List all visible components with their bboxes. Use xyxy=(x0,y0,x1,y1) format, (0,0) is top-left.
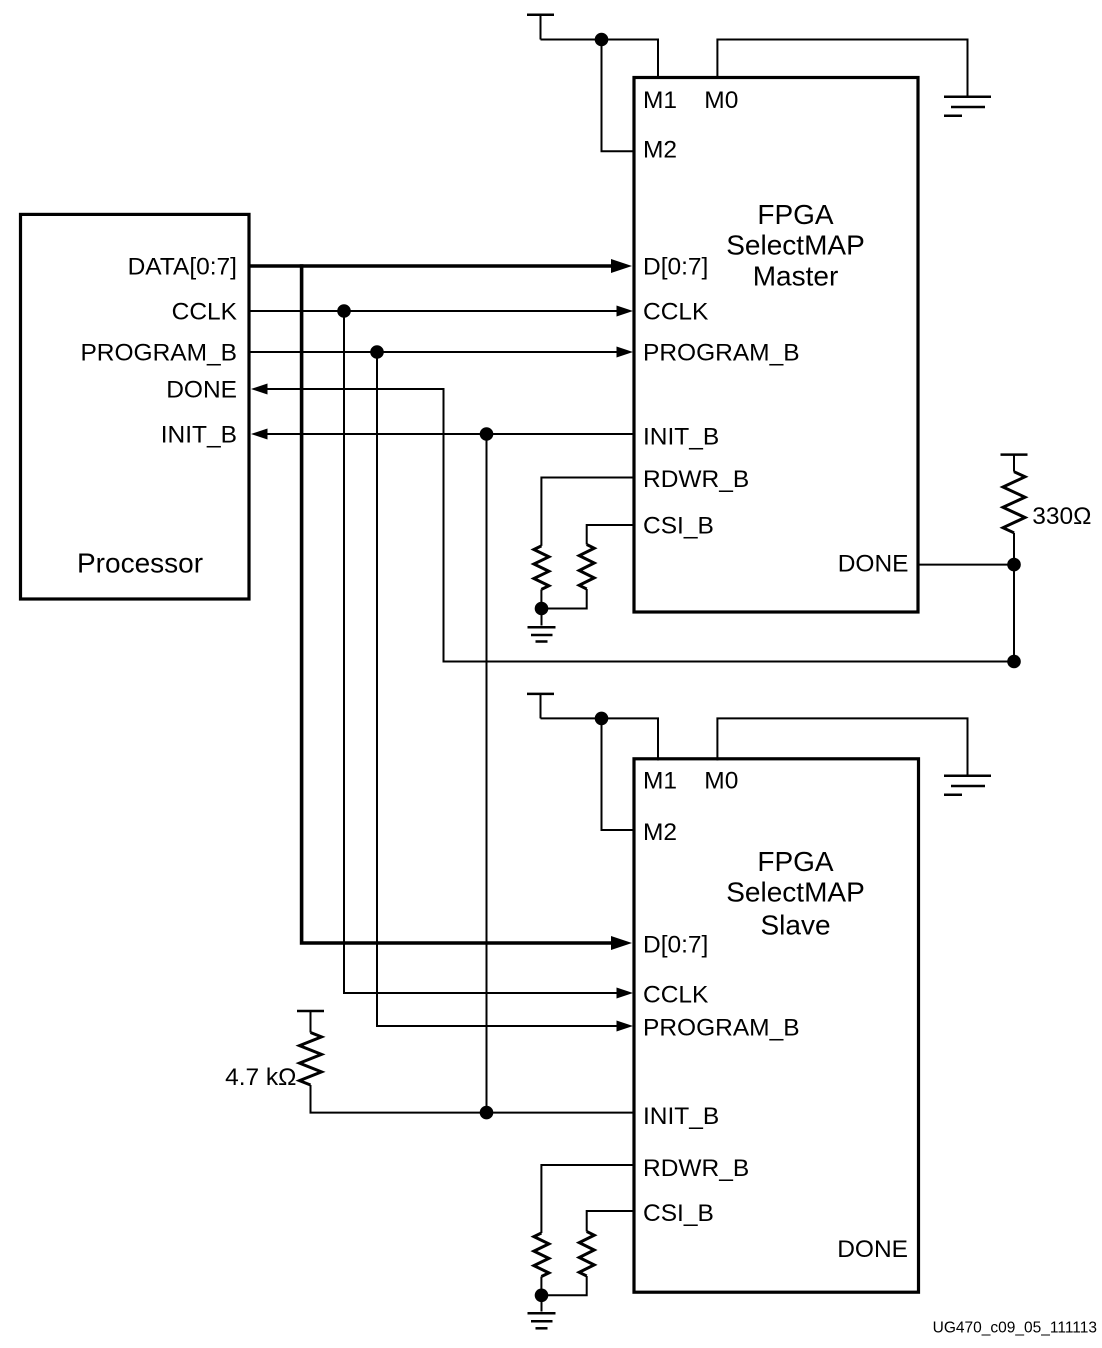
wire 4.7 kohm to slave INIT_B xyxy=(311,1085,635,1113)
processor box xyxy=(21,214,250,599)
svg-text:DONE: DONE xyxy=(166,377,237,404)
resistor slave RDWR_B pull-down xyxy=(534,1233,549,1277)
wire INIT_B processor to master INIT_B xyxy=(267,433,634,435)
wire PROGRAM_B processor to master PROGRAM_B xyxy=(251,351,618,353)
arrowhead into processor INIT_B xyxy=(251,429,268,440)
resistor master RDWR_B pull-down xyxy=(534,546,549,590)
arrowhead into master CCLK xyxy=(617,306,634,317)
arrowhead into master D[0:7] xyxy=(611,259,632,273)
wire CSI_B resistor to ground junction xyxy=(542,589,587,609)
junction dot PROGRAM_B branch xyxy=(370,345,384,359)
wire PROGRAM_B branch to slave PROGRAM_B xyxy=(377,352,618,1026)
wire master CSI_B to pull-down xyxy=(587,525,634,545)
svg-text:CCLK: CCLK xyxy=(172,299,238,326)
svg-text:PROGRAM_B: PROGRAM_B xyxy=(643,340,800,367)
arrowhead into processor DONE xyxy=(251,384,268,395)
svg-text:CCLK: CCLK xyxy=(643,299,709,326)
svg-text:DATA[0:7]: DATA[0:7] xyxy=(128,254,237,281)
wire to master ground symbol xyxy=(541,609,543,626)
junction dot CCLK branch xyxy=(337,304,351,318)
junction dot DONE / 330 ohm xyxy=(1007,558,1021,572)
svg-text:PROGRAM_B: PROGRAM_B xyxy=(643,1015,800,1042)
wire CCLK processor to master CCLK xyxy=(251,310,618,312)
junction dot slave pull-down ground xyxy=(535,1289,549,1303)
arrowhead into slave D[0:7] xyxy=(611,936,632,950)
wire slave RDWR_B to pull-down xyxy=(541,1165,634,1233)
wire to slave ground symbol xyxy=(541,1295,543,1311)
wire CCLK branch to slave CCLK xyxy=(344,311,618,993)
junction dot master pull-down ground xyxy=(535,602,549,616)
VCC symbol (4.7 kohm pull-up) xyxy=(297,1010,324,1013)
junction dot slave M1/M2 net xyxy=(595,712,609,726)
junction dot slave INIT_B xyxy=(480,1106,494,1120)
wire M0 to ground xyxy=(717,40,967,97)
svg-text:M0: M0 xyxy=(704,768,738,795)
svg-text:M2: M2 xyxy=(643,136,677,163)
svg-text:CSI_B: CSI_B xyxy=(643,1200,714,1227)
svg-text:M1: M1 xyxy=(643,768,677,795)
wire resistor to ground junction xyxy=(540,589,542,608)
svg-text:4.7 kΩ: 4.7 kΩ xyxy=(225,1064,296,1091)
wire to slave M2 pin xyxy=(602,718,636,830)
svg-text:Slave: Slave xyxy=(760,909,830,940)
wire INIT_B branch to slave INIT_B xyxy=(486,434,488,1113)
svg-text:M0: M0 xyxy=(704,87,738,114)
VCC symbol (330 ohm pull-up) xyxy=(1001,453,1028,456)
arrowhead into master PROGRAM_B xyxy=(617,347,634,358)
wire master RDWR_B to pull-down xyxy=(541,478,634,546)
junction dot INIT_B branch xyxy=(480,427,494,441)
svg-text:FPGA: FPGA xyxy=(757,199,834,230)
ground symbol (master pull-downs) xyxy=(528,627,556,641)
svg-text:M1: M1 xyxy=(643,87,677,114)
svg-text:Processor: Processor xyxy=(77,547,203,578)
ground symbol (slave M0) xyxy=(944,776,991,795)
svg-text:INIT_B: INIT_B xyxy=(161,422,237,449)
svg-text:D[0:7]: D[0:7] xyxy=(643,932,708,959)
wire VCC to slave M1 xyxy=(541,718,659,760)
arrowhead into slave PROGRAM_B xyxy=(617,1021,634,1032)
VCC symbol (master M1/M2 pull-up) xyxy=(527,13,554,16)
svg-text:SelectMAP: SelectMAP xyxy=(726,229,865,260)
FPGA SelectMAP Master box U1 xyxy=(634,78,918,613)
svg-text:DONE: DONE xyxy=(838,551,909,578)
svg-text:CSI_B: CSI_B xyxy=(643,513,714,540)
wire slave CSI_B resistor to ground junction xyxy=(542,1276,587,1295)
wire slave CSI_B to pull-down xyxy=(587,1211,634,1232)
svg-text:330Ω: 330Ω xyxy=(1032,503,1091,530)
wire master DONE pin xyxy=(918,564,1014,566)
svg-text:RDWR_B: RDWR_B xyxy=(643,1155,749,1182)
svg-text:CCLK: CCLK xyxy=(643,982,709,1009)
svg-text:FPGA: FPGA xyxy=(757,846,834,877)
wire to M2 pin xyxy=(602,40,636,152)
ground symbol (master M0) xyxy=(944,97,991,116)
VCC symbol (slave M1/M2 pull-up) xyxy=(527,693,554,696)
wire slave M0 to ground xyxy=(717,718,967,774)
resistor 4.7 kohm xyxy=(300,1033,322,1086)
arrowhead into slave CCLK xyxy=(617,988,634,999)
svg-text:SelectMAP: SelectMAP xyxy=(726,877,865,908)
resistor master CSI_B pull-down xyxy=(579,545,594,590)
svg-text:M2: M2 xyxy=(643,819,677,846)
svg-text:INIT_B: INIT_B xyxy=(643,424,719,451)
svg-text:Master: Master xyxy=(753,260,839,291)
svg-text:UG470_c09_05_111113: UG470_c09_05_111113 xyxy=(933,1320,1097,1337)
junction dot DONE net lower xyxy=(1007,655,1021,669)
wire DATA bus branch to slave D[0:7] xyxy=(302,264,613,943)
wire resistor to slave ground junction xyxy=(540,1277,542,1296)
wire VCC to M1 xyxy=(541,40,659,80)
svg-text:INIT_B: INIT_B xyxy=(643,1103,719,1130)
svg-text:D[0:7]: D[0:7] xyxy=(643,254,708,281)
svg-text:RDWR_B: RDWR_B xyxy=(643,466,749,493)
svg-text:PROGRAM_B: PROGRAM_B xyxy=(80,340,237,367)
resistor 330 ohm xyxy=(1003,472,1025,533)
svg-text:DONE: DONE xyxy=(837,1236,908,1263)
ground symbol (slave pull-downs) xyxy=(528,1313,556,1328)
resistor slave CSI_B pull-down xyxy=(579,1232,594,1277)
wire DONE net processor to master DONE / pull-up xyxy=(267,389,1014,662)
wire DATA[0:7] bus processor to master D[0:7] xyxy=(251,264,614,268)
wire DONE riser xyxy=(1013,565,1015,662)
junction dot M1/M2 net xyxy=(595,33,609,47)
wire 330 ohm to DONE xyxy=(1013,533,1015,565)
FPGA SelectMAP Slave box U2 xyxy=(634,759,919,1292)
